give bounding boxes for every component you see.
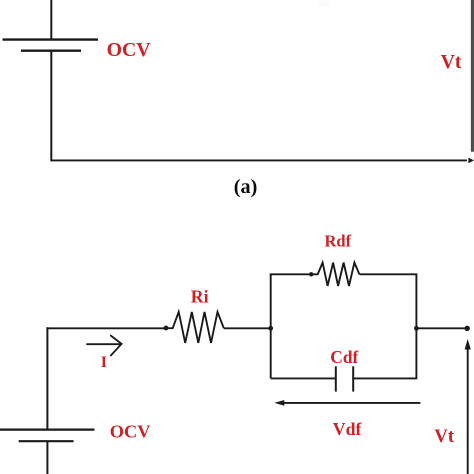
Vdf arrow: horizontal line with left arrowhead: [274, 400, 420, 406]
capacitor Cdf left plate: [335, 366, 337, 391]
svg-text:Vdf: Vdf: [333, 419, 363, 439]
wire: circuit (a) left lead down: [50, 51, 52, 162]
wire: RC box to output node: [416, 327, 465, 329]
battery OCV (b) short plate: [19, 440, 74, 442]
battery OCV (b) long plate: [0, 429, 95, 431]
node dot at output terminal: [465, 326, 470, 331]
capacitor Cdf right plate: [352, 366, 354, 391]
wire: circuit (a) bottom horizontal: [51, 159, 467, 161]
node dot at RC box right: [414, 326, 419, 331]
RC box right vertical: [415, 274, 417, 379]
svg-text:Cdf: Cdf: [330, 347, 358, 367]
faint artifact near top center: [318, 0, 329, 7]
wire: RC box bottom right segment: [353, 377, 417, 379]
wire: Ri to RC box left node: [224, 327, 271, 329]
wire: RC box top left segment: [270, 273, 311, 275]
svg-text:(a): (a): [234, 176, 258, 198]
current arrow I (open chevron): [87, 336, 122, 356]
svg-text:Vt: Vt: [441, 52, 462, 73]
wire: circuit (a) battery top lead: [50, 0, 52, 40]
Vt indicator line (a), right edge: [471, 0, 474, 152]
wire: circuit (b) main horizontal, battery to node: [46, 327, 166, 329]
resistor Ri zigzag: [166, 312, 224, 343]
svg-text:Rdf: Rdf: [325, 232, 352, 251]
battery OCV (a) long plate: [3, 38, 99, 40]
RC box left vertical: [270, 274, 272, 379]
svg-text:I: I: [101, 354, 107, 371]
wire: RC box top right segment: [359, 273, 417, 275]
svg-text:Vt: Vt: [434, 426, 455, 447]
node dot on top branch: [309, 272, 313, 276]
arrowhead at right end of circuit (a) bottom wire: [468, 158, 474, 164]
resistor Rdf zigzag: [311, 263, 359, 286]
node dot before Ri: [164, 326, 169, 331]
wire: circuit (b) battery bottom lead: [46, 441, 48, 474]
svg-text:Ri: Ri: [191, 286, 209, 306]
wire: circuit (b) left vertical lead: [46, 327, 48, 429]
Vt arrow (b): vertical line with up arrowhead: [465, 339, 471, 474]
node dot at RC box left: [268, 326, 273, 331]
battery OCV (a) short plate: [21, 50, 81, 52]
svg-text:OCV: OCV: [107, 39, 152, 61]
svg-text:OCV: OCV: [110, 422, 151, 442]
wire: RC box bottom left segment: [271, 377, 336, 379]
